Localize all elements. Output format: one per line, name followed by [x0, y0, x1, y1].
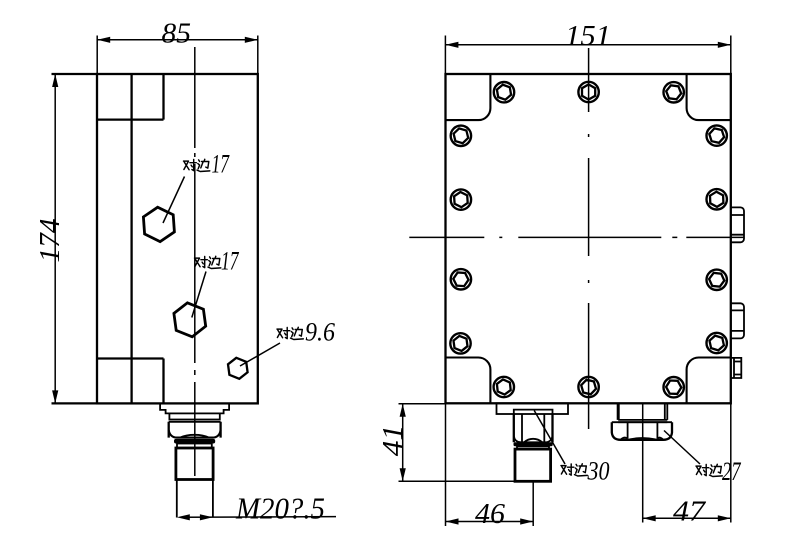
svg-text:174: 174 — [35, 219, 66, 263]
left view: top step horizontal — [97, 118, 164, 120]
right column bolt 1 — [707, 125, 727, 145]
bottom row bolt 3 — [664, 377, 684, 397]
left view: threaded stem — [176, 448, 213, 480]
fitting 1 shoulder — [514, 410, 553, 414]
dimension 46: arrows — [446, 518, 459, 524]
dimension 85: arrows — [97, 37, 110, 43]
bottom row bolt 1 — [494, 377, 514, 397]
dimension 46: line — [446, 521, 534, 523]
left column bolt 2 — [451, 189, 471, 209]
fitting 1 gasket (black band) — [514, 442, 553, 446]
top row bolt 1 — [494, 82, 514, 102]
left column bolt 4 — [450, 333, 470, 353]
dimension 151: arrows — [445, 42, 458, 48]
left view: lower pipe walls — [177, 480, 213, 518]
right view: top-right corner inset — [687, 74, 731, 120]
dimension M20x1.5: arrows — [177, 514, 190, 520]
left view: hex hole 1 (AF17) — [143, 207, 174, 241]
dimension 46: extension lines — [446, 403, 534, 526]
fitting 2 neck — [618, 403, 667, 422]
svg-text:41: 41 — [378, 425, 409, 457]
fitting 1 stem — [515, 449, 551, 481]
dimension 85: line — [97, 39, 258, 41]
dimension 47: arrows — [643, 515, 656, 521]
right view: top-left corner inset — [446, 74, 491, 120]
left view: fitting hex top double line — [169, 421, 221, 423]
left view: fitting washer band — [177, 444, 212, 449]
right view: body outline — [446, 74, 731, 403]
leader line for hex 2 — [192, 272, 206, 318]
right edge boss tab 2 — [731, 303, 744, 338]
left view: top edge extended to 174-dim extension — [52, 73, 98, 75]
svg-text:17: 17 — [221, 247, 239, 276]
top row bolt 2 — [578, 82, 598, 102]
right column bolt 3 — [707, 270, 727, 290]
leader line for small hex — [240, 343, 280, 366]
left view: fitting hex body — [169, 422, 221, 438]
dimension M20x1.5: line and shelf — [180, 516, 336, 519]
svg-text:151: 151 — [565, 21, 611, 52]
svg-text:30: 30 — [587, 457, 610, 486]
svg-text:17: 17 — [212, 150, 230, 179]
left view: bottom step vertical — [162, 359, 164, 404]
dimension 41: line — [402, 404, 404, 482]
dimension 174: arrows — [52, 74, 58, 87]
left view: vertical centerline — [194, 47, 196, 476]
left view: inner vertical edge line — [130, 74, 132, 403]
svg-text:M20?.5: M20?.5 — [235, 491, 325, 526]
leader line for fitting 1 (AF30) — [534, 411, 565, 465]
right edge boss tab 3 (small) — [731, 358, 742, 378]
left view: hex hole 2 (AF17) — [174, 303, 206, 337]
dimension 41: arrows — [400, 404, 406, 417]
left view: small hex hole (AF9.6) — [228, 358, 248, 379]
left view: bottom step horizontal — [97, 357, 164, 359]
svg-text:85: 85 — [162, 18, 192, 50]
dimension 151: line — [445, 44, 730, 46]
dimension 41: extension lines — [399, 404, 552, 482]
left view: body outline — [97, 74, 258, 403]
left column bolt 1 — [451, 126, 471, 146]
right column bolt 2 — [707, 189, 727, 209]
dimension 174: line — [54, 74, 56, 403]
bottom row bolt 2 — [578, 377, 598, 397]
label AF17 (hex2) — [195, 247, 240, 276]
left view: top step vertical — [162, 74, 164, 120]
label AF30 — [561, 457, 610, 486]
right view: bottom-left corner inset — [446, 358, 491, 404]
top row bolt 3 — [664, 82, 684, 102]
dimension 47: line — [643, 517, 731, 519]
left view: fitting collar band — [169, 413, 219, 419]
fitting 1 flange — [497, 403, 569, 414]
svg-text:47: 47 — [673, 496, 707, 528]
left view: bottom edge extended to 174-dim extension — [52, 402, 98, 404]
right view: vertical centerline — [588, 48, 590, 430]
svg-text:46: 46 — [475, 499, 505, 530]
label AF17 (hex1) — [184, 150, 230, 179]
label AF9.6 — [277, 318, 335, 347]
leader line for fitting 2 (AF27) — [664, 431, 700, 465]
fitting 2 hex nut — [612, 422, 672, 440]
dimension 151: extension lines — [445, 36, 730, 75]
left view: fitting stair step left — [160, 403, 169, 413]
right view: horizontal centerline — [409, 236, 743, 238]
fitting 1 washer band — [517, 446, 549, 449]
left view: fitting stair step right — [220, 403, 229, 413]
dimension 47: extension lines — [643, 403, 731, 522]
label AF27 — [696, 457, 741, 486]
fitting 1 hex body — [514, 414, 553, 442]
right view: bottom-right corner inset — [687, 358, 731, 404]
svg-text:27: 27 — [722, 457, 741, 486]
dimension 85: extension lines — [97, 36, 258, 75]
right edge boss tab 1 — [731, 207, 744, 242]
leader line for hex 1 — [163, 177, 185, 224]
right column bolt 4 — [707, 333, 727, 353]
left view: fitting gasket (black band) — [174, 439, 215, 444]
svg-text:9.6: 9.6 — [305, 318, 335, 347]
left column bolt 3 — [451, 269, 471, 289]
